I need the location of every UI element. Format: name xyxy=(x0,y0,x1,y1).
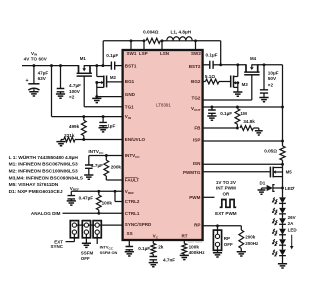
svg-text:LSN: LSN xyxy=(160,51,169,56)
svg-text:BG1: BG1 xyxy=(125,79,135,84)
svg-text:0.1µF: 0.1µF xyxy=(106,53,118,58)
wire SYNC/SPRD xyxy=(74,224,122,226)
resistor R12 200k 200Hz xyxy=(240,226,242,230)
svg-text:LED: LED xyxy=(288,227,298,232)
svg-text:BG2: BG2 xyxy=(191,79,201,84)
svg-text:4.7nF: 4.7nF xyxy=(163,257,175,262)
svg-text:SSFM ON: SSFM ON xyxy=(100,250,118,255)
svg-text:ISP: ISP xyxy=(193,138,200,143)
wire SW1 stub xyxy=(130,41,132,50)
FAULT overline xyxy=(125,176,138,178)
svg-text:CTRL2: CTRL2 xyxy=(125,199,140,204)
svg-text:47µF: 47µF xyxy=(38,71,49,76)
svg-text:LSP: LSP xyxy=(139,51,148,56)
resistor R3 200k pull-up xyxy=(105,156,107,161)
svg-text:D1: NXP PMEG6010CEJ: D1: NXP PMEG6010CEJ xyxy=(9,189,63,195)
svg-text:4.7µF: 4.7µF xyxy=(91,163,103,168)
svg-text:100V: 100V xyxy=(69,89,81,94)
svg-text:RP: RP xyxy=(224,236,230,241)
svg-text:0.004Ω: 0.004Ω xyxy=(143,29,159,34)
svg-text:200Hz: 200Hz xyxy=(245,241,259,246)
wire PWMTG to M5 gate xyxy=(203,171,271,173)
svg-text:PWM: PWM xyxy=(189,195,200,200)
svg-text:SYNC: SYNC xyxy=(50,244,63,249)
wire top rail left xyxy=(103,40,144,42)
capacitor C1 47uF 63V input bulk xyxy=(33,66,35,84)
ground at 221k xyxy=(61,139,64,141)
svg-text:+: + xyxy=(25,78,28,84)
svg-text:M3: M3 xyxy=(242,82,249,87)
svg-text:EN/UVLO: EN/UVLO xyxy=(125,137,146,142)
wire LSP stub xyxy=(143,41,145,50)
jumper JP4 RP OFF block xyxy=(213,230,221,250)
wire FB pin xyxy=(203,127,238,129)
svg-text:0.1µF: 0.1µF xyxy=(220,111,232,116)
svg-text:4.7µF: 4.7µF xyxy=(69,83,81,88)
capacitor C5 4.7uF INTVCC xyxy=(88,156,90,166)
svg-text:BST1: BST1 xyxy=(125,63,137,68)
capacitor C8 4.7nF VC xyxy=(150,257,158,260)
capacitor C10 10uF 50V x2 output xyxy=(263,65,265,90)
ground LED string xyxy=(282,256,284,264)
resistor R6 100k RT xyxy=(183,240,185,243)
wire VOUT pin line xyxy=(203,106,283,108)
wire EN/UVLO pin xyxy=(75,139,123,141)
wire VIN rail xyxy=(22,65,79,67)
resistor R1 499k xyxy=(83,117,85,121)
svg-text:0.1µF: 0.1µF xyxy=(138,246,150,251)
svg-text:1µF: 1µF xyxy=(107,123,115,128)
wire SW2 node line xyxy=(221,64,246,66)
wire TG2 to M4 gate xyxy=(251,75,253,100)
jumper JP3 SSFM ON block xyxy=(93,221,101,238)
svg-text:+: + xyxy=(293,186,295,190)
wire LSN stub xyxy=(161,41,163,50)
node SW1 junction xyxy=(95,64,98,67)
wire VOUT right rail upper xyxy=(282,65,284,141)
svg-text:M2: INFINEON BSC100N06LS3: M2: INFINEON BSC100N06LS3 xyxy=(9,169,78,175)
svg-text:M5: M5 xyxy=(286,170,293,175)
svg-text:100k: 100k xyxy=(102,201,113,206)
wire INTVCC pin xyxy=(89,155,123,157)
wire CTRL2 tied to VREF xyxy=(114,191,116,201)
IC U1 LT8391 buck-boost controller body xyxy=(123,50,203,240)
svg-text:PWMTG: PWMTG xyxy=(183,170,201,175)
resistor R2 221k xyxy=(64,137,75,142)
svg-text:M5: VISHAY Si7611DN: M5: VISHAY Si7611DN xyxy=(9,182,59,188)
svg-text:1M: 1M xyxy=(240,111,247,116)
wire top rail right xyxy=(192,40,221,42)
svg-text:D1: D1 xyxy=(260,181,266,186)
svg-text:M2: M2 xyxy=(110,75,117,80)
svg-text:2k: 2k xyxy=(158,245,164,250)
svg-text:0.05Ω: 0.05Ω xyxy=(264,149,277,154)
svg-text:OFF: OFF xyxy=(81,256,90,261)
svg-text:TG2: TG2 xyxy=(192,96,201,101)
svg-text:OR: OR xyxy=(223,192,231,197)
svg-text:0.47µF: 0.47µF xyxy=(79,195,94,200)
inductor L1 4.8uH xyxy=(167,37,192,41)
wire VIN pin xyxy=(52,116,123,118)
svg-text:SW1: SW1 xyxy=(127,51,137,56)
svg-text:×2: ×2 xyxy=(268,83,274,88)
wire FAULT pin xyxy=(106,179,122,181)
svg-text:L 1: WÜRTH 7443550480 4.8µH: L 1: WÜRTH 7443550480 4.8µH xyxy=(9,154,79,161)
svg-text:8391 TA01a: 8391 TA01a xyxy=(188,240,202,244)
svg-text:0.1µF: 0.1µF xyxy=(206,53,218,58)
wire SW1 riser to top rail xyxy=(102,41,104,66)
wire SW2 riser down xyxy=(220,41,222,65)
resistor R11 0.05 ohm LED sense xyxy=(282,141,284,146)
wire SSFM OFF ground stub xyxy=(85,232,87,243)
svg-text:200k: 200k xyxy=(111,164,122,169)
capacitor C6 0.47uF VREF xyxy=(70,191,72,195)
svg-text:100k: 100k xyxy=(189,244,200,249)
wire VREF pin xyxy=(71,190,122,192)
svg-text:2A: 2A xyxy=(288,221,295,226)
svg-text:SS: SS xyxy=(127,231,133,236)
capacitor C11 0.1uF VOUT xyxy=(211,107,213,110)
wire M1 gate to TG1 xyxy=(83,76,85,107)
wire ISN pin xyxy=(203,163,283,165)
svg-text:50V: 50V xyxy=(268,76,277,81)
svg-text:SYNC/SPRD: SYNC/SPRD xyxy=(125,222,152,227)
svg-text:ISN: ISN xyxy=(193,161,201,166)
svg-text:LT8391: LT8391 xyxy=(156,103,171,108)
svg-text:M4: M4 xyxy=(250,56,257,61)
wire GND pin xyxy=(97,96,123,98)
resistor R9 1M feedback top xyxy=(236,107,238,109)
resistor R7 0.004 ohm sense xyxy=(146,38,160,43)
svg-text:ANALOG DIM: ANALOG DIM xyxy=(31,211,61,216)
svg-text:BST2: BST2 xyxy=(189,64,201,69)
svg-text:221k: 221k xyxy=(64,133,75,138)
capacitor C2 4.7uF 100V x2 xyxy=(60,66,62,89)
svg-text:SW2: SW2 xyxy=(191,51,201,56)
svg-text:×2: ×2 xyxy=(69,94,75,99)
svg-text:63V: 63V xyxy=(38,76,47,81)
svg-text:EXT PWM: EXT PWM xyxy=(215,211,237,216)
svg-text:400kHz: 400kHz xyxy=(189,250,206,255)
wire PWM pin stub xyxy=(203,196,215,198)
svg-text:200k: 200k xyxy=(245,235,256,240)
svg-text:M3,M4: INFINEON BSC093N04LS: M3,M4: INFINEON BSC093N04LS xyxy=(9,175,84,181)
svg-text:34.8k: 34.8k xyxy=(243,119,255,124)
svg-text:499k: 499k xyxy=(69,124,80,129)
svg-text:GND: GND xyxy=(125,92,136,97)
resistor R5 2k VC xyxy=(152,240,154,243)
ground under M2 xyxy=(96,97,98,99)
wire SW2 stub xyxy=(195,41,197,50)
wire VIN feed down to VIN pin xyxy=(51,66,53,117)
svg-text:26V: 26V xyxy=(288,215,296,220)
resistor R10 34.8k feedback bottom xyxy=(240,126,253,131)
LED string D2-D7 26V 2A xyxy=(282,188,284,197)
svg-text:TG1: TG1 xyxy=(125,104,134,109)
svg-text:M1: INFINEON BSC067N06LS3: M1: INFINEON BSC067N06LS3 xyxy=(9,162,78,168)
svg-text:10µF: 10µF xyxy=(268,70,279,75)
capacitor C7 0.1uF SS xyxy=(128,240,130,247)
wire BG1 to M2 gate xyxy=(107,81,123,83)
resistor R4 100k xyxy=(98,191,100,195)
svg-text:L1, 4.8µH: L1, 4.8µH xyxy=(171,29,192,34)
svg-text:INT PWM: INT PWM xyxy=(216,186,236,191)
svg-text:FB: FB xyxy=(194,126,201,131)
capacitor C4 1uF on VIN pin xyxy=(102,117,104,123)
jumper JP2 SSFM block xyxy=(82,221,90,238)
svg-text:1V TO 2V: 1V TO 2V xyxy=(216,180,237,185)
svg-text:RT: RT xyxy=(181,234,187,239)
wire M4 source to output xyxy=(258,64,283,66)
svg-text:CTRL1: CTRL1 xyxy=(125,211,140,216)
svg-text:4V TO 60V: 4V TO 60V xyxy=(24,57,47,62)
wire RP pin xyxy=(203,225,242,227)
svg-text:FAULT: FAULT xyxy=(125,178,140,183)
svg-text:OFF: OFF xyxy=(224,242,233,247)
wire EXT SYNC stub xyxy=(73,232,75,242)
wire ISP pin xyxy=(203,140,283,142)
wire SSFM ON stub xyxy=(96,232,98,244)
svg-text:M1: M1 xyxy=(80,56,87,61)
jumper JP1 EXT SYNC block xyxy=(70,221,78,238)
svg-text:RP: RP xyxy=(194,222,200,227)
wire CTRL1 analog dim xyxy=(63,212,123,214)
